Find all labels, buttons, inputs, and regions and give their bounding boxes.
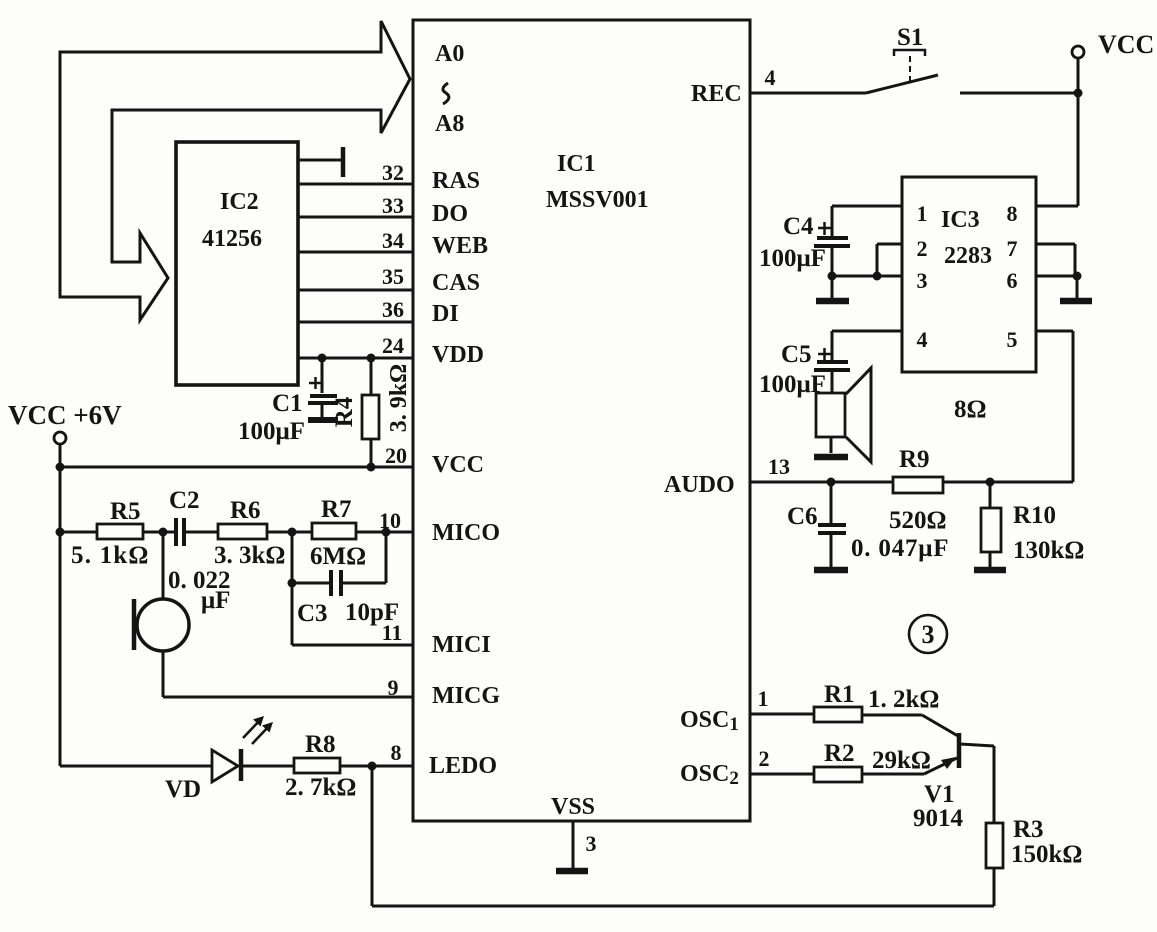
svg-text:A8: A8 — [435, 111, 464, 137]
svg-text:VCC: VCC — [1098, 30, 1154, 59]
svg-text:9014: 9014 — [913, 805, 964, 832]
svg-text:C6: C6 — [787, 503, 818, 530]
svg-text:2: 2 — [917, 236, 928, 261]
svg-text:3: 3 — [922, 620, 935, 649]
svg-text:9: 9 — [388, 675, 399, 700]
svg-text:R6: R6 — [230, 497, 261, 524]
svg-text:32: 32 — [382, 160, 404, 185]
svg-text:520Ω: 520Ω — [889, 507, 947, 534]
svg-text:OSC2: OSC2 — [680, 761, 739, 789]
svg-text:1: 1 — [917, 201, 928, 226]
svg-text:5: 5 — [1007, 327, 1018, 352]
svg-text:2: 2 — [759, 746, 770, 771]
svg-text:20: 20 — [385, 443, 407, 468]
svg-text:36: 36 — [382, 297, 404, 322]
svg-text:34: 34 — [382, 228, 404, 253]
svg-text:LEDO: LEDO — [429, 753, 497, 779]
svg-text:3. 3kΩ: 3. 3kΩ — [214, 542, 285, 569]
svg-text:DI: DI — [432, 301, 459, 327]
svg-text:VSS: VSS — [551, 794, 595, 820]
svg-text:R10: R10 — [1013, 502, 1056, 529]
svg-text:R3: R3 — [1013, 816, 1044, 843]
svg-text:RAS: RAS — [432, 168, 480, 194]
svg-text:10pF: 10pF — [345, 599, 399, 626]
svg-text:3. 9kΩ: 3. 9kΩ — [386, 364, 412, 433]
svg-text:24: 24 — [382, 333, 404, 358]
svg-text:6MΩ: 6MΩ — [310, 543, 366, 570]
svg-text:35: 35 — [382, 264, 404, 289]
svg-text:MICG: MICG — [432, 683, 500, 709]
svg-text:41256: 41256 — [202, 226, 262, 252]
svg-text:130kΩ: 130kΩ — [1013, 537, 1084, 564]
svg-text:IC3: IC3 — [941, 207, 980, 233]
svg-text:CAS: CAS — [432, 270, 480, 296]
svg-text:REC: REC — [691, 81, 742, 107]
svg-text:VDD: VDD — [432, 342, 484, 368]
svg-text:R2: R2 — [824, 740, 855, 767]
svg-text:4: 4 — [917, 327, 928, 352]
svg-text:3: 3 — [586, 831, 597, 856]
svg-text:C4: C4 — [783, 213, 814, 240]
svg-text:6: 6 — [1007, 268, 1018, 293]
svg-text:C2: C2 — [169, 487, 200, 514]
svg-text:1: 1 — [758, 686, 769, 711]
svg-text:R9: R9 — [899, 446, 930, 473]
svg-text:1. 2kΩ: 1. 2kΩ — [868, 686, 939, 713]
svg-text:5. 1kΩ: 5. 1kΩ — [71, 542, 150, 569]
svg-text:MICI: MICI — [432, 632, 491, 658]
svg-text:V1: V1 — [924, 781, 955, 808]
svg-text:MICO: MICO — [432, 520, 500, 546]
svg-text:33: 33 — [382, 193, 404, 218]
svg-text:R8: R8 — [305, 731, 336, 758]
svg-text:C3: C3 — [297, 600, 328, 627]
svg-text:150kΩ: 150kΩ — [1011, 841, 1082, 868]
svg-text:8: 8 — [391, 740, 402, 765]
svg-text:AUDO: AUDO — [664, 472, 735, 498]
svg-text:7: 7 — [1007, 236, 1018, 261]
svg-text:2. 7kΩ: 2. 7kΩ — [285, 774, 356, 801]
svg-text:IC2: IC2 — [220, 189, 259, 215]
svg-text:R4: R4 — [331, 396, 358, 427]
svg-text:S1: S1 — [897, 24, 923, 51]
svg-text:μF: μF — [201, 587, 230, 614]
svg-text:DO: DO — [432, 201, 468, 227]
svg-text:10: 10 — [379, 508, 401, 533]
svg-text:3: 3 — [917, 268, 928, 293]
svg-text:R5: R5 — [110, 498, 141, 525]
svg-text:100μF: 100μF — [238, 418, 305, 445]
svg-text:OSC1: OSC1 — [680, 707, 739, 735]
svg-text:VCC +6V: VCC +6V — [8, 400, 122, 430]
svg-text:MSSV001: MSSV001 — [546, 187, 649, 213]
svg-text:8Ω: 8Ω — [954, 396, 987, 423]
svg-text:R7: R7 — [321, 496, 352, 523]
svg-text:100μF: 100μF — [759, 245, 826, 272]
svg-text:13: 13 — [768, 454, 790, 479]
svg-text:R1: R1 — [824, 681, 855, 708]
svg-text:IC1: IC1 — [557, 151, 596, 177]
svg-text:VD: VD — [165, 776, 201, 803]
svg-text:WEB: WEB — [432, 233, 488, 259]
svg-text:0. 047μF: 0. 047μF — [851, 535, 949, 562]
svg-text:100μF: 100μF — [759, 371, 826, 398]
svg-text:8: 8 — [1007, 201, 1018, 226]
svg-text:VCC: VCC — [432, 452, 484, 478]
svg-text:29kΩ: 29kΩ — [872, 747, 931, 774]
svg-text:C1: C1 — [272, 390, 303, 417]
svg-text:A0: A0 — [435, 41, 464, 67]
svg-text:4: 4 — [765, 65, 776, 90]
svg-text:2283: 2283 — [944, 243, 992, 269]
svg-text:C5: C5 — [781, 341, 812, 368]
